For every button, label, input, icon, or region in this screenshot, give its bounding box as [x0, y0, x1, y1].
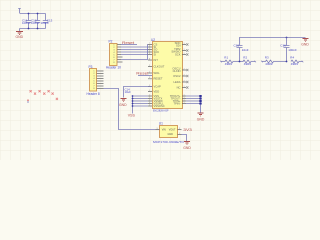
- svg-text:VDD: VDD: [154, 89, 160, 93]
- wire top bus cap bank: [20, 13, 46, 15]
- ground (TP): [198, 113, 204, 116]
- wire CS jog: [121, 45, 148, 60]
- junction dots VSS: [132, 95, 134, 97]
- svg-text:WOL: WOL: [154, 71, 161, 75]
- svg-text:100nF: 100nF: [22, 21, 31, 25]
- wire SI: [121, 46, 148, 48]
- wire SCK: [121, 51, 148, 53]
- svg-text:P2: P2: [109, 40, 113, 44]
- svg-text:VSSOSC: VSSOSC: [154, 104, 165, 108]
- power bar top-left: [18, 9, 21, 14]
- svg-text:10nF: 10nF: [242, 48, 249, 52]
- svg-text:INT: INT: [154, 58, 159, 62]
- svg-text:VOUT: VOUT: [169, 129, 176, 132]
- svg-text:CLKOUT: CLKOUT: [154, 64, 165, 68]
- svg-text:U2: U2: [151, 38, 155, 42]
- svg-text:GND: GND: [301, 43, 309, 47]
- svg-text:R4: R4: [290, 56, 294, 60]
- svg-text:VSS: VSS: [128, 113, 136, 118]
- svg-text:2: 2: [184, 80, 185, 82]
- IC U2 ENC28J60: [153, 42, 183, 109]
- capacitor C12: [35, 14, 40, 29]
- svg-text:2: 2: [149, 65, 150, 67]
- junction squares TP: [199, 95, 201, 105]
- wire TP group to ground: [186, 96, 201, 113]
- svg-text:5: 5: [149, 104, 150, 106]
- svg-text:1: 1: [184, 86, 185, 88]
- svg-text:LEDA: LEDA: [173, 80, 180, 84]
- P2 pins: [117, 45, 122, 63]
- svg-text:C15: C15: [234, 43, 240, 47]
- ERC markers: [30, 90, 59, 100]
- svg-text:49R9: 49R9: [291, 62, 299, 66]
- node marker: [27, 100, 29, 103]
- svg-text:2: 2: [184, 68, 185, 70]
- svg-text:3: 3: [149, 53, 150, 55]
- U2 left pin names: [154, 42, 165, 108]
- svg-text:C16: C16: [280, 43, 286, 47]
- svg-text:Reset: Reset: [122, 41, 134, 45]
- svg-text:2: 2: [184, 74, 185, 76]
- svg-text:CLKIN: CLKIN: [173, 69, 181, 73]
- junction dot R1/C15: [239, 61, 241, 63]
- svg-text:3V3: 3V3: [183, 128, 192, 132]
- resistor R4: [291, 60, 303, 63]
- ground (termination bus): [303, 39, 309, 42]
- svg-text:U1: U1: [159, 122, 163, 126]
- svg-text:R1: R1: [224, 56, 228, 60]
- svg-text:SDI: SDI: [176, 44, 181, 48]
- wire Reset (P2 pin1): [121, 44, 137, 46]
- wire pin5: [121, 54, 148, 56]
- svg-text:VCAP: VCAP: [154, 84, 162, 88]
- svg-text:GND: GND: [16, 35, 24, 39]
- svg-text:1: 1: [184, 43, 185, 45]
- svg-text:VIN: VIN: [162, 129, 166, 132]
- junction dot bus: [286, 37, 288, 39]
- svg-text:100nF: 100nF: [31, 21, 40, 25]
- resistor R1: [221, 60, 244, 63]
- svg-text:P3: P3: [89, 65, 93, 69]
- svg-text:100nF: 100nF: [288, 48, 297, 52]
- svg-text:1: 1: [149, 71, 150, 73]
- ground (U1): [184, 142, 190, 145]
- svg-text:SCK: SCK: [175, 52, 181, 56]
- wire U1 GND: [182, 135, 187, 142]
- ground (cap bank): [16, 32, 23, 35]
- svg-text:Header 8: Header 8: [87, 92, 100, 96]
- regulator U1: [160, 126, 178, 138]
- svg-text:ENC28J60-I/SP: ENC28J60-I/SP: [153, 109, 169, 113]
- svg-text:GND: GND: [183, 146, 191, 150]
- wire P3 pin8 to regulator VIN: [104, 89, 156, 130]
- svg-text:49R9: 49R9: [225, 62, 233, 66]
- wire VSS collector: [133, 96, 149, 114]
- svg-text:9: 9: [149, 77, 150, 79]
- svg-text:Reset: Reset: [136, 72, 148, 76]
- ground (VCAP): [121, 99, 127, 102]
- U2 left pin stubs: [148, 45, 152, 107]
- wire bottom bus cap bank: [20, 29, 46, 32]
- svg-text:2: 2: [179, 128, 180, 130]
- svg-text:1: 1: [184, 102, 185, 104]
- svg-text:3: 3: [157, 128, 158, 130]
- svg-text:49R9: 49R9: [265, 62, 273, 66]
- junction dot R3/C16: [286, 61, 288, 63]
- junction dots C11: [28, 13, 30, 15]
- svg-text:GND: GND: [197, 118, 205, 122]
- svg-text:49R9: 49R9: [244, 62, 252, 66]
- U1 pin stubs: [156, 130, 182, 135]
- svg-text:GND: GND: [119, 103, 127, 107]
- wire Reset to U2: [138, 75, 152, 77]
- U2 no-connect marks: [186, 43, 188, 88]
- capacitor C13: [43, 14, 48, 29]
- svg-text:GND: GND: [168, 133, 174, 136]
- svg-text:1: 1: [184, 53, 185, 55]
- svg-text:1: 1: [184, 49, 185, 51]
- svg-text:1: 1: [179, 133, 180, 135]
- svg-text:OSC2: OSC2: [173, 74, 181, 78]
- svg-text:Header 10: Header 10: [106, 66, 121, 70]
- resistor R3: [262, 60, 287, 63]
- svg-text:RESET: RESET: [154, 77, 163, 81]
- connector P2: [110, 44, 118, 66]
- svg-text:TPIN-: TPIN-: [173, 101, 180, 105]
- wire VCAP: [124, 87, 153, 98]
- junction dots C12: [37, 13, 39, 15]
- U2 pin numbers: [149, 43, 185, 107]
- P3 pins: [97, 71, 104, 89]
- capacitor C16: [284, 38, 290, 62]
- wire SO: [121, 49, 148, 51]
- connector P3: [90, 69, 97, 92]
- svg-text:R3: R3: [265, 56, 269, 60]
- resistor R2: [243, 60, 255, 63]
- svg-text:MCP1700-3302E/TO: MCP1700-3302E/TO: [153, 140, 185, 144]
- svg-text:SI: SI: [154, 52, 157, 56]
- svg-text:NC: NC: [177, 85, 181, 89]
- svg-text:10uF: 10uF: [125, 90, 132, 94]
- capacitor C15: [237, 46, 243, 62]
- wire termination top bus: [240, 38, 306, 46]
- svg-text:8: 8: [149, 58, 150, 60]
- U2 right pin names: [170, 41, 181, 105]
- svg-text:100nF: 100nF: [41, 21, 50, 25]
- U2 right pin stubs: [182, 45, 186, 104]
- svg-text:1: 1: [149, 90, 150, 92]
- svg-text:R2: R2: [243, 56, 247, 60]
- capacitor C11: [26, 14, 31, 29]
